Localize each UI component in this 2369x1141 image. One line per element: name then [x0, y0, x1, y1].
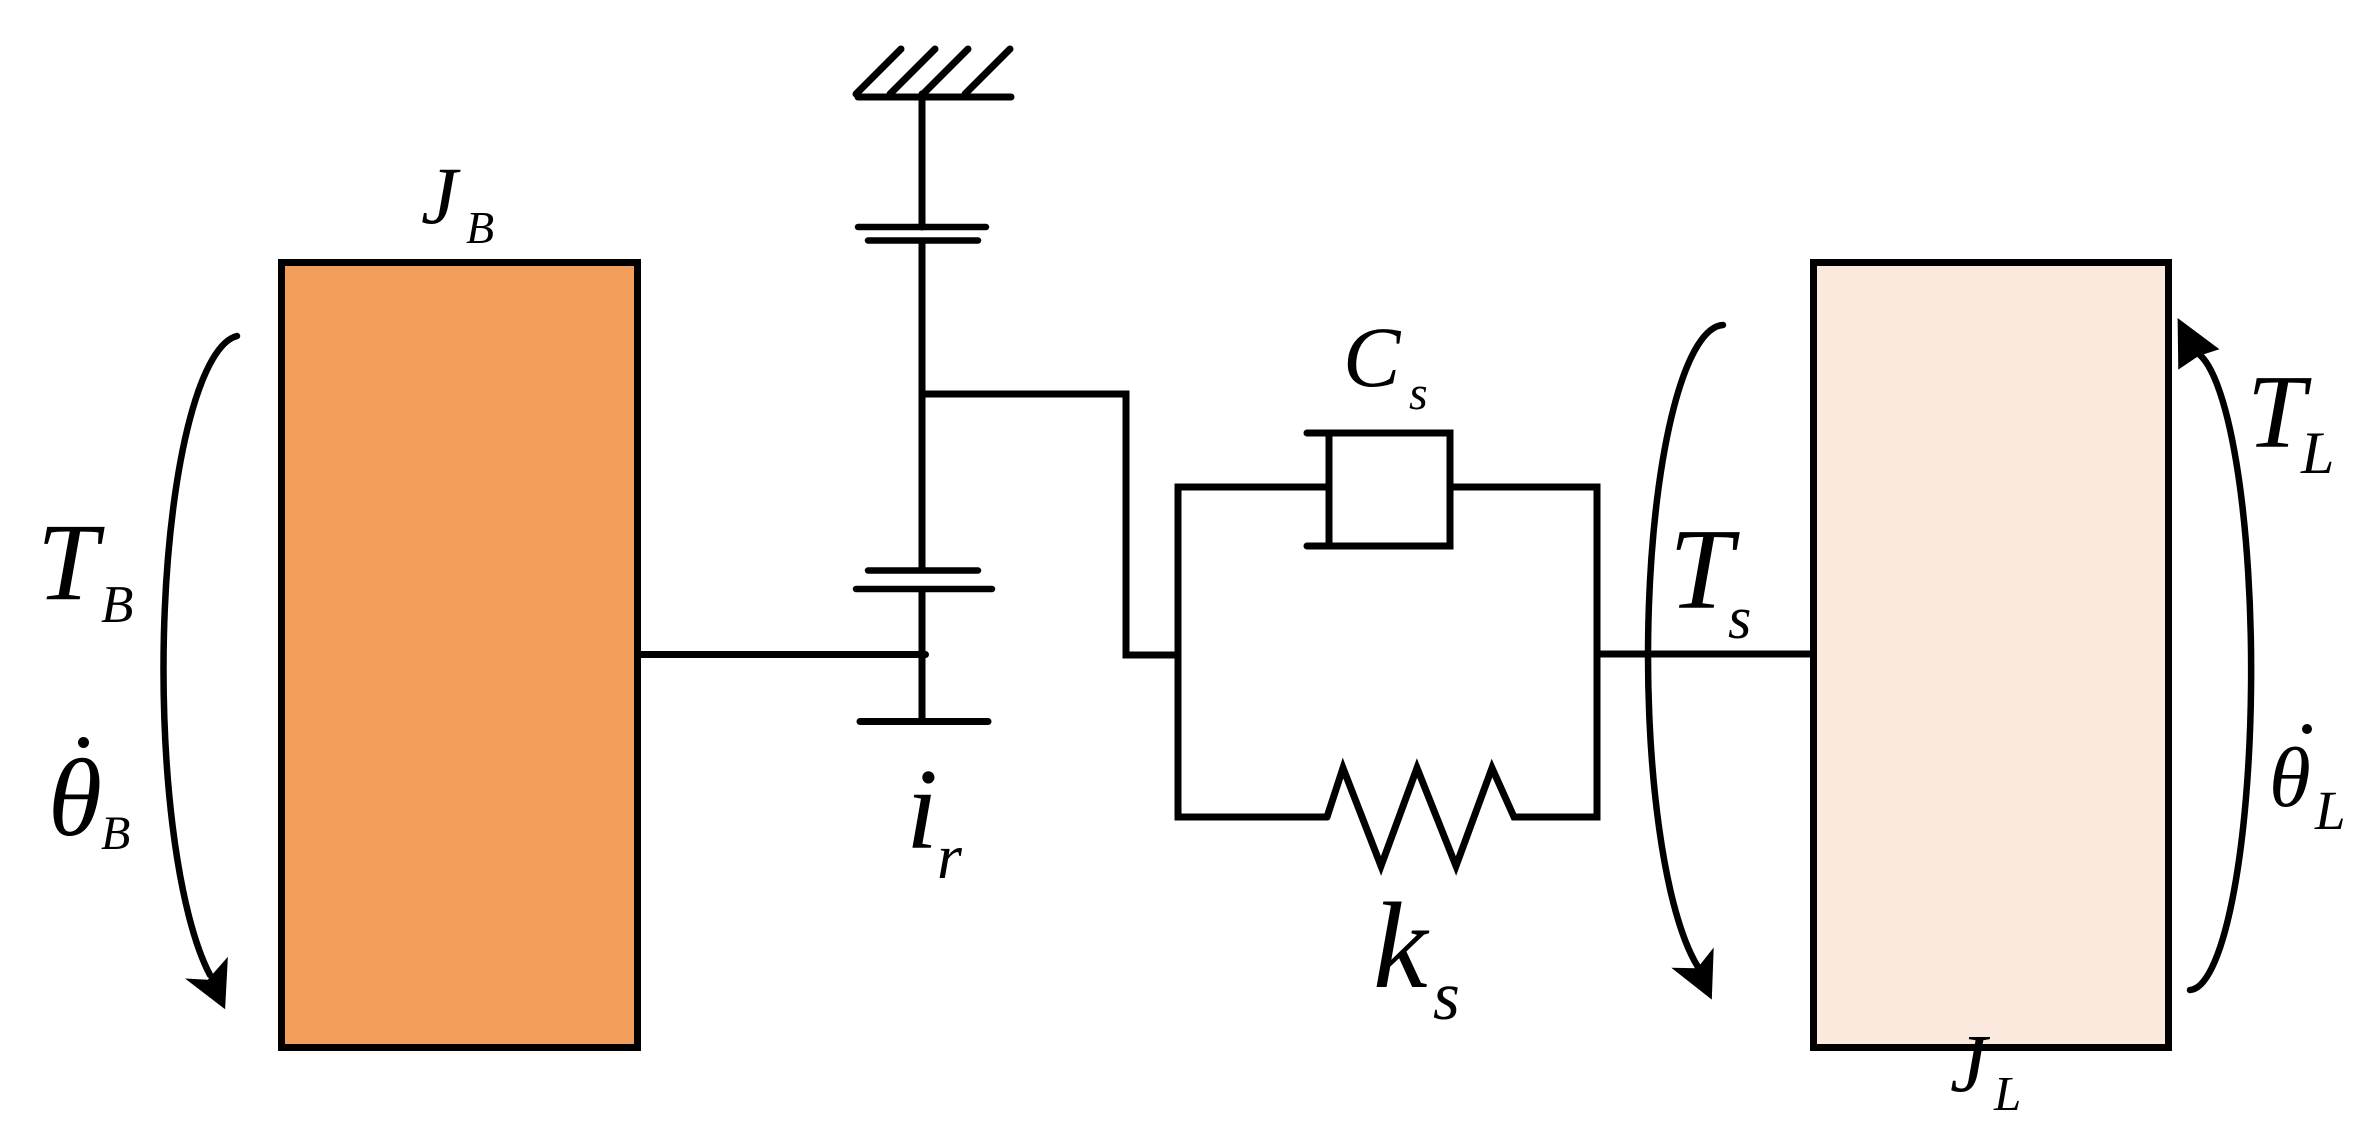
wire input shaft from J_B — [641, 651, 926, 658]
torque arc T_B — [163, 336, 237, 975]
svg-text:θ: θ — [48, 737, 102, 859]
arrowhead T_L — [2178, 318, 2220, 370]
torque arc T_L — [2190, 352, 2251, 990]
svg-text:L: L — [2300, 420, 2334, 486]
svg-text:B: B — [466, 202, 494, 253]
gear end bar — [860, 718, 988, 725]
svg-text:B: B — [101, 576, 133, 634]
svg-text:L: L — [1993, 1066, 2021, 1121]
svg-text:B: B — [101, 807, 130, 860]
arrowhead T_B — [185, 957, 228, 1010]
svg-text:k: k — [1373, 877, 1430, 1014]
svg-text:θ: θ — [2269, 731, 2311, 825]
svg-text:s: s — [1409, 367, 1428, 420]
svg-text:C: C — [1343, 309, 1402, 405]
coupling frame left — [1178, 487, 1329, 817]
wire branch gear to coupling — [922, 394, 1175, 655]
wire gear shaft lower — [919, 592, 926, 722]
arrowhead T_s — [1671, 948, 1713, 1000]
damper C_s piston — [1326, 433, 1333, 546]
svg-text:T: T — [37, 501, 105, 623]
torque arc T_s — [1648, 325, 1723, 970]
gear bearing upper pair — [858, 227, 986, 241]
spring k_s and coupling frame right — [1327, 487, 1597, 866]
svg-text:i: i — [906, 746, 938, 873]
svg-text:r: r — [937, 821, 963, 892]
svg-text:J: J — [1950, 1017, 1991, 1109]
wire gear shaft upper — [919, 243, 926, 570]
gear bearing lower pair — [856, 571, 992, 590]
svg-text:s: s — [1433, 958, 1460, 1034]
ground hatch — [856, 49, 1011, 97]
wire output shaft T_s — [1597, 651, 1810, 658]
inertia block J_B — [282, 263, 638, 1048]
inertia block J_L — [1814, 263, 2169, 1048]
svg-text:L: L — [2314, 780, 2346, 841]
damper C_s cylinder — [1307, 433, 1450, 546]
wire ground shaft — [919, 94, 926, 227]
svg-text:s: s — [1728, 585, 1751, 651]
svg-text:J: J — [421, 150, 461, 241]
